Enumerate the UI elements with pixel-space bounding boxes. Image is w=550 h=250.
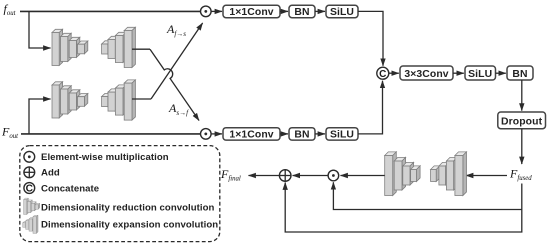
box Dropout bbox=[498, 112, 546, 129]
legend adder symbol bbox=[24, 167, 35, 178]
wire arrow to SiLU (right) bbox=[453, 72, 464, 74]
svg-text:BN: BN bbox=[294, 7, 309, 18]
legend dashed border bbox=[20, 146, 220, 242]
wire branch from f_out down to top reduction conv bbox=[29, 11, 51, 48]
dimensionality reduction convolution (bottom pair) bbox=[52, 82, 88, 118]
wire arrow adder to F_final bbox=[249, 175, 280, 177]
box SiLU (bottom) bbox=[326, 128, 358, 141]
wire F_out main line bbox=[21, 133, 201, 135]
wire SiLU bottom up to concatenate node bbox=[358, 81, 383, 134]
box BN (top) bbox=[289, 5, 315, 18]
dimensionality expansion convolution (bottom pair) bbox=[102, 80, 136, 120]
wire Dropout down to F_fused bbox=[521, 129, 523, 164]
wire arrow to BN (right) bbox=[496, 72, 506, 74]
svg-text:1×1Conv: 1×1Conv bbox=[229, 130, 273, 141]
svg-text:BN: BN bbox=[294, 130, 309, 141]
wire F_fused feedback down and left to adder (outer loop) bbox=[285, 183, 522, 233]
svg-text:1×1Conv: 1×1Conv bbox=[229, 7, 273, 18]
wire BN down to Dropout bbox=[521, 80, 523, 111]
svg-text:Dropout: Dropout bbox=[501, 116, 543, 127]
adder node (add) bbox=[279, 170, 291, 182]
wire from bottom expansion conv to diagonal A_s->f start bbox=[132, 98, 151, 100]
wire SiLU top to concatenate node bbox=[358, 11, 383, 65]
wire arrow F_fused to expansion conv (bottom chain) bbox=[466, 175, 507, 177]
dimensionality expansion convolution (top pair) bbox=[102, 27, 136, 67]
dimensionality reduction convolution (top pair) bbox=[52, 29, 88, 65]
multiplier node bottom chain bbox=[328, 170, 339, 181]
dimensionality reduction convolution (bottom chain) bbox=[385, 152, 420, 196]
wire diagonal down with hop, arrow to F_out multiplier bbox=[150, 49, 199, 120]
wire F_fused feedback branch to multiplier (inner loop) bbox=[333, 182, 521, 209]
wire arrow reduction conv to multiplier (bottom chain) bbox=[341, 175, 385, 177]
wire arrow to SiLU (top) bbox=[315, 10, 325, 12]
svg-text:3×3Conv: 3×3Conv bbox=[404, 69, 448, 80]
wire branch from F_out up to bottom reduction conv bbox=[29, 99, 51, 134]
wire arrow multiplier to 1x1Conv (top) bbox=[211, 10, 222, 12]
dimensionality expansion convolution (bottom chain) bbox=[431, 152, 467, 196]
wire diagonal up, arrow to f_out multiplier bbox=[151, 23, 203, 99]
legend concatenate symbol bbox=[24, 183, 35, 195]
svg-text:SiLU: SiLU bbox=[330, 130, 354, 141]
multiplier node bottom (element-wise multiplication) bbox=[201, 129, 212, 140]
legend reduction convolution icon bbox=[24, 198, 40, 214]
box 1x1Conv (top) bbox=[223, 5, 280, 18]
box BN (right) bbox=[507, 66, 533, 80]
svg-text:SiLU: SiLU bbox=[330, 7, 354, 18]
box SiLU (top) bbox=[326, 5, 358, 18]
svg-text:C: C bbox=[26, 184, 34, 195]
concatenate node C bbox=[377, 67, 389, 80]
box SiLU (right) bbox=[465, 66, 496, 80]
wire arrow C to 3x3Conv bbox=[389, 72, 399, 74]
svg-text:Concatenate: Concatenate bbox=[41, 183, 99, 194]
box 3x3Conv bbox=[400, 66, 453, 80]
wire arrow to BN (bottom) bbox=[280, 133, 288, 135]
svg-text:Dimensionality reduction convo: Dimensionality reduction convolution bbox=[41, 203, 215, 214]
multiplier node top (element-wise multiplication) bbox=[201, 6, 212, 17]
wire f_out main line bbox=[20, 10, 201, 12]
wire from top expansion conv to diagonal A_f->s start bbox=[132, 48, 150, 50]
wire arrow to BN (top) bbox=[280, 10, 288, 12]
svg-text:Dimensionality expansion convo: Dimensionality expansion convolution bbox=[41, 219, 218, 230]
box BN (bottom) bbox=[289, 128, 315, 141]
wire arrow to SiLU (bottom) bbox=[315, 133, 325, 135]
svg-text:Add: Add bbox=[41, 168, 60, 179]
legend expansion convolution icon bbox=[23, 215, 38, 233]
svg-text:Element-wise multiplication: Element-wise multiplication bbox=[41, 152, 169, 163]
svg-text:BN: BN bbox=[512, 69, 527, 80]
svg-text:C: C bbox=[379, 69, 386, 80]
svg-text:SiLU: SiLU bbox=[468, 69, 492, 80]
box 1x1Conv (bottom) bbox=[223, 128, 280, 141]
wire arrow multiplier to adder bbox=[293, 175, 328, 177]
wire arrow multiplier to 1x1Conv (bottom) bbox=[211, 133, 222, 135]
legend multiplier symbol bbox=[24, 151, 35, 162]
